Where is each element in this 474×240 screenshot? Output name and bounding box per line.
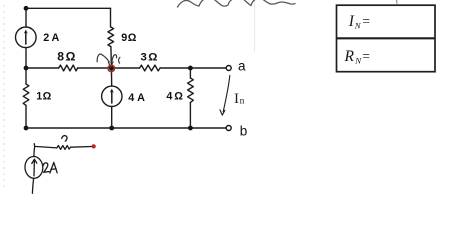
sketch wire down to source [33,146,36,156]
svg-text:n: n [240,97,245,107]
node center [109,66,114,71]
svg-text:R: R [344,48,355,65]
table box [337,5,436,72]
pencil tick above table [396,0,398,4]
svg-text:Ω: Ω [174,90,183,102]
wire 4-ohm branch upper [189,68,191,78]
svg-text:4: 4 [128,92,134,104]
wire middle left (26,68)-(58.7,68) [26,67,59,69]
faint scan crease line [254,0,256,52]
node right-bottom [188,126,193,131]
svg-text:I: I [234,91,239,107]
svg-text:8: 8 [57,49,64,63]
svg-text:=: = [362,13,370,28]
node left-middle [24,66,29,71]
resistor R 3ohm horizontal zigzag [140,65,161,71]
svg-text:N: N [354,20,362,30]
svg-text:A: A [52,32,60,44]
resistor R 9ohm vertical zigzag [108,27,114,47]
svg-text:=: = [362,48,370,63]
pencil curls over center node [97,54,120,67]
current source I2 4A [102,86,122,106]
current source I1 2A [15,27,36,48]
pencil scribble top-right [178,0,296,7]
labels printed [36,32,247,138]
wire top (26,8.3)-(110.5,8.3) [26,7,111,9]
sketch source ellipse [24,156,43,179]
wire middle right to terminal a [160,67,226,69]
svg-text:a: a [238,59,246,74]
red circle annotation on center node [108,65,114,71]
paper edge faint dotted line [3,5,5,190]
resistor R 1ohm vertical zigzag [23,84,29,105]
label In handwritten [234,91,245,107]
wire 1-ohm branch upper [25,68,27,84]
node center-bottom [109,126,114,131]
wire middle (77.6,68)-(139.6,68) [78,67,140,69]
svg-text:4: 4 [166,90,172,102]
wire below 9-ohm to center node [110,47,113,68]
svg-text:b: b [240,124,248,139]
sketch wire below [32,178,33,193]
node left-bottom [24,126,29,131]
svg-text:Ω: Ω [43,91,52,103]
sketch red dot terminal [92,144,96,148]
junction dots [24,6,193,130]
table divider [337,37,436,39]
svg-text:9: 9 [121,32,127,44]
wire 4-ohm branch lower [189,103,191,129]
current arrow In between a and b [220,76,230,116]
svg-text:3: 3 [141,51,147,63]
wire 1-ohm branch lower [25,105,27,128]
svg-text:Ω: Ω [128,32,137,44]
wire bottom rail to terminal b [26,127,226,129]
svg-text:N: N [354,56,362,66]
terminal b open circle [226,126,231,131]
pencil paren mark [119,57,120,63]
table text IN = [344,13,371,66]
wire center branch node to 4A source [110,68,112,86]
handwritten 2A beside sketch [43,163,49,172]
svg-text:A: A [137,92,145,104]
sketch arrow inside [33,160,35,176]
terminal a open circle [226,66,231,71]
sketch curl above resistor [62,136,67,142]
svg-text:Ω: Ω [148,51,157,63]
svg-text:I: I [348,13,355,30]
wire 9-ohm branch vertical [110,8,112,27]
resistor R 4ohm vertical zigzag [188,78,194,103]
svg-text:2: 2 [43,32,49,44]
answer table [337,5,436,72]
sketch wire to red dot [71,146,92,149]
wire left rail upper segments around 2A source [25,8,27,27]
svg-text:1: 1 [36,91,42,103]
wire 4A source to bottom [111,107,113,129]
resistor R 8ohm horizontal zigzag [59,65,78,71]
svg-text:Ω: Ω [66,49,76,63]
node right-middle [188,66,193,71]
hand sketch bottom-left: wire top [24,136,92,194]
node top-left [24,6,29,11]
sketch resistor zigzag [57,146,71,150]
